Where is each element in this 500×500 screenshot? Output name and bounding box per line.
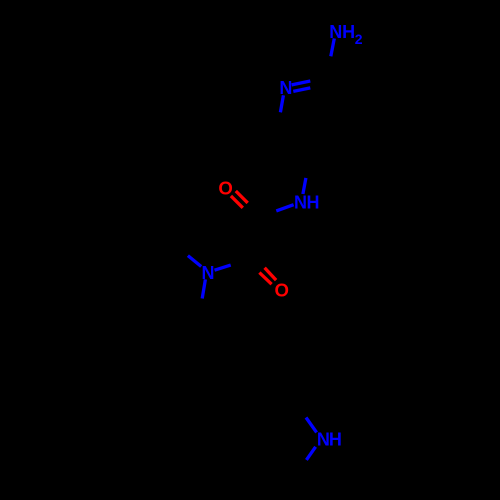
svg-text:O: O <box>218 178 232 199</box>
wire: bond tert-N up-left to CH2 (blue half) <box>188 256 201 267</box>
svg-text:H: H <box>342 22 355 42</box>
svg-text:N: N <box>294 192 307 212</box>
wire: bond amide NH to carbonyl C1 (blue half) <box>276 205 293 211</box>
svg-text:H: H <box>329 430 342 450</box>
svg-text:2: 2 <box>355 31 363 47</box>
wire: bond N1 to C6 (blue half) <box>280 95 283 112</box>
svg-text:O: O <box>275 279 289 300</box>
svg-text:H: H <box>307 192 320 212</box>
svg-text:N: N <box>202 263 215 283</box>
wire: bond amide NH up to ring C5 (blue half) <box>303 178 306 194</box>
wire: bond NH2 to C2 (blue half) <box>331 38 335 56</box>
wire: bond indole NH down-left (blue half) <box>306 447 315 460</box>
wire: double bond C1=O1 line B (red half) <box>236 191 248 203</box>
svg-text:N: N <box>329 22 342 42</box>
wire: bond indole NH up-left (blue half) <box>306 418 317 433</box>
wire: double bond N1=C2 outer line (blue half) <box>292 81 311 85</box>
amine NH2 label <box>329 22 362 47</box>
wire: bond tert-N to carbonyl C2 (blue half) <box>215 265 231 270</box>
wire: double bond C2=O2 line B (red half) <box>265 268 277 280</box>
wire: double bond C1=O1 line A (red half) <box>231 196 243 208</box>
svg-text:N: N <box>279 78 292 98</box>
amide NH label <box>294 192 320 212</box>
wire: double bond C2=O2 line A (red half) <box>259 273 271 285</box>
wire: double bond N1=C2 inner line (blue half) <box>293 88 310 92</box>
indoline NH label <box>317 430 342 450</box>
wire: bond tert-N down to CH2 (blue half) <box>202 279 205 298</box>
